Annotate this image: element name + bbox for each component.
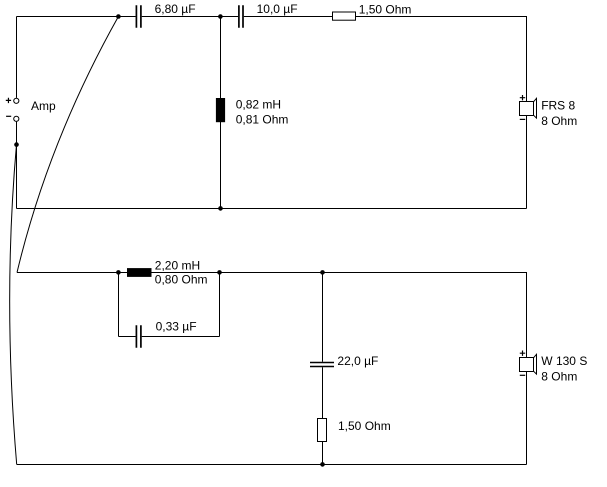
svg-text:8 Ohm: 8 Ohm (541, 369, 577, 383)
svg-text:Amp: Amp (31, 99, 56, 113)
svg-text:22,0 µF: 22,0 µF (337, 354, 378, 368)
svg-text:2,20 mH: 2,20 mH (155, 258, 200, 272)
svg-text:0,82 mH: 0,82 mH (236, 98, 281, 112)
svg-text:8 Ohm: 8 Ohm (541, 114, 577, 128)
svg-text:10,0 µF: 10,0 µF (257, 2, 298, 16)
svg-text:0,81 Ohm: 0,81 Ohm (236, 112, 289, 126)
svg-text:1,50 Ohm: 1,50 Ohm (338, 419, 391, 433)
svg-text:W 130 S: W 130 S (541, 354, 587, 368)
svg-text:6,80 µF: 6,80 µF (155, 2, 196, 16)
svg-text:1,50 Ohm: 1,50 Ohm (359, 2, 412, 16)
svg-text:0,33 µF: 0,33 µF (156, 320, 197, 334)
svg-text:FRS 8: FRS 8 (541, 99, 575, 113)
svg-text:0,80 Ohm: 0,80 Ohm (155, 273, 208, 287)
